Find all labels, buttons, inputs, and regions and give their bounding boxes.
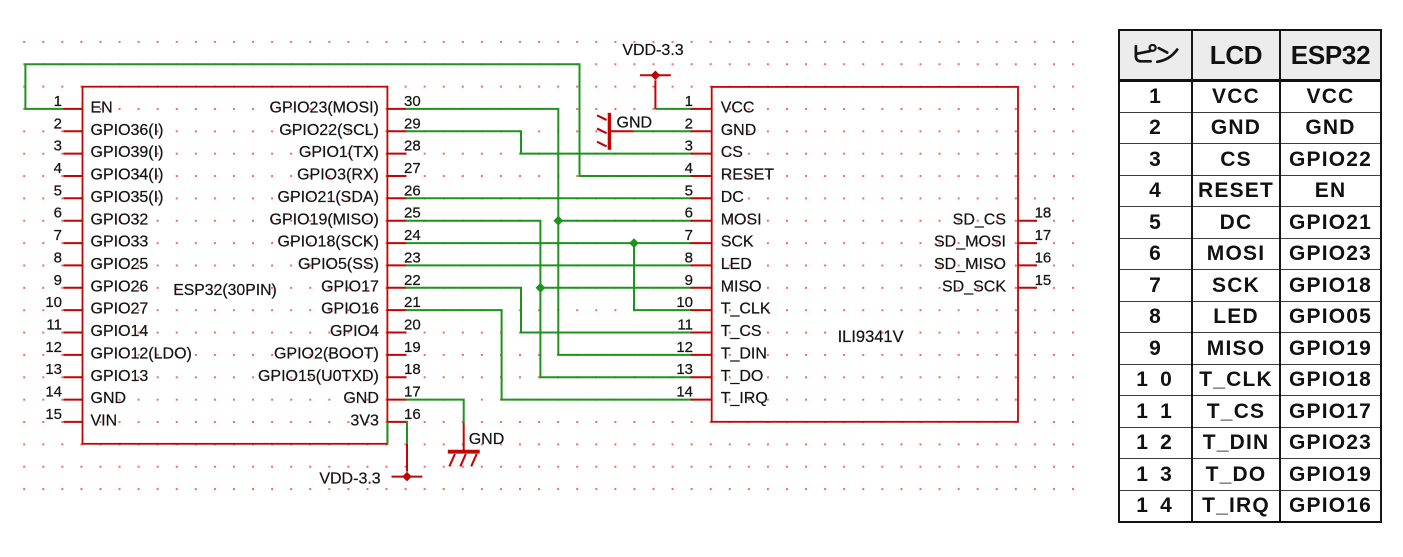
svg-text:14: 14 bbox=[676, 384, 693, 401]
svg-text:10: 10 bbox=[45, 294, 62, 311]
svg-text:9: 9 bbox=[685, 272, 693, 289]
svg-text:GPIO2(BOOT): GPIO2(BOOT) bbox=[274, 346, 379, 363]
svg-text:29: 29 bbox=[404, 115, 421, 132]
svg-text:ILI9341V: ILI9341V bbox=[838, 328, 904, 346]
svg-text:16: 16 bbox=[404, 406, 421, 423]
svg-text:5: 5 bbox=[54, 182, 62, 199]
svg-text:T_DO: T_DO bbox=[721, 368, 764, 385]
svg-text:6: 6 bbox=[54, 205, 62, 222]
svg-text:8: 8 bbox=[685, 249, 693, 266]
svg-text:GPIO14: GPIO14 bbox=[91, 323, 149, 340]
svg-text:GND: GND bbox=[469, 431, 505, 448]
svg-text:GPIO3(RX): GPIO3(RX) bbox=[297, 167, 379, 184]
svg-text:MOSI: MOSI bbox=[721, 211, 762, 228]
svg-text:GPIO27: GPIO27 bbox=[91, 301, 149, 318]
svg-text:GND: GND bbox=[721, 122, 757, 139]
svg-text:19: 19 bbox=[404, 339, 421, 356]
svg-text:T_CLK: T_CLK bbox=[721, 301, 771, 318]
svg-text:GPIO32: GPIO32 bbox=[91, 211, 149, 228]
svg-text:3: 3 bbox=[685, 138, 693, 155]
svg-text:25: 25 bbox=[404, 205, 421, 222]
svg-text:SD_MOSI: SD_MOSI bbox=[934, 234, 1006, 251]
svg-text:28: 28 bbox=[404, 138, 421, 155]
svg-text:GPIO39(I): GPIO39(I) bbox=[91, 144, 164, 161]
svg-text:4: 4 bbox=[685, 160, 693, 177]
svg-text:23: 23 bbox=[404, 249, 421, 266]
svg-text:SCK: SCK bbox=[721, 234, 754, 251]
svg-text:26: 26 bbox=[404, 182, 421, 199]
svg-text:LED: LED bbox=[721, 256, 752, 273]
svg-text:GPIO36(I): GPIO36(I) bbox=[91, 122, 164, 139]
svg-text:15: 15 bbox=[1035, 272, 1052, 289]
svg-text:GPIO17: GPIO17 bbox=[321, 278, 379, 295]
svg-text:18: 18 bbox=[404, 361, 421, 378]
svg-text:3V3: 3V3 bbox=[350, 413, 379, 430]
svg-text:10: 10 bbox=[676, 294, 693, 311]
svg-text:GND: GND bbox=[617, 114, 653, 131]
svg-text:1: 1 bbox=[54, 93, 62, 110]
svg-text:GPIO26: GPIO26 bbox=[91, 278, 149, 295]
svg-text:5: 5 bbox=[685, 182, 693, 199]
svg-text:3: 3 bbox=[54, 138, 62, 155]
svg-text:8: 8 bbox=[54, 249, 62, 266]
svg-text:18: 18 bbox=[1035, 205, 1052, 222]
svg-text:GPIO15(U0TXD): GPIO15(U0TXD) bbox=[258, 368, 379, 385]
svg-text:MISO: MISO bbox=[721, 278, 762, 295]
svg-text:CS: CS bbox=[721, 144, 743, 161]
svg-text:11: 11 bbox=[46, 317, 62, 334]
svg-text:13: 13 bbox=[45, 361, 62, 378]
svg-text:GND: GND bbox=[91, 390, 127, 407]
svg-text:T_CS: T_CS bbox=[721, 323, 762, 340]
svg-text:SD_SCK: SD_SCK bbox=[942, 278, 1006, 295]
svg-text:GPIO12(LDO): GPIO12(LDO) bbox=[91, 346, 192, 363]
svg-text:13: 13 bbox=[676, 361, 693, 378]
svg-text:SD_CS: SD_CS bbox=[953, 211, 1006, 228]
svg-text:12: 12 bbox=[45, 339, 62, 356]
svg-text:RESET: RESET bbox=[721, 167, 775, 184]
svg-text:16: 16 bbox=[1035, 249, 1052, 266]
svg-text:EN: EN bbox=[91, 100, 113, 117]
svg-text:GPIO23(MOSI): GPIO23(MOSI) bbox=[270, 100, 379, 117]
svg-text:GPIO13: GPIO13 bbox=[91, 368, 149, 385]
svg-text:GPIO5(SS): GPIO5(SS) bbox=[298, 256, 379, 273]
svg-text:7: 7 bbox=[685, 227, 693, 244]
svg-text:VCC: VCC bbox=[721, 100, 755, 117]
svg-text:17: 17 bbox=[404, 384, 421, 401]
svg-text:1: 1 bbox=[685, 93, 693, 110]
svg-text:24: 24 bbox=[404, 227, 421, 244]
svg-text:22: 22 bbox=[404, 272, 421, 289]
svg-text:GPIO35(I): GPIO35(I) bbox=[91, 189, 164, 206]
svg-text:GPIO34(I): GPIO34(I) bbox=[91, 167, 164, 184]
svg-text:ESP32(30PIN): ESP32(30PIN) bbox=[173, 282, 277, 299]
svg-text:4: 4 bbox=[54, 160, 62, 177]
svg-text:30: 30 bbox=[404, 93, 421, 110]
svg-text:GPIO4: GPIO4 bbox=[330, 323, 379, 340]
svg-text:7: 7 bbox=[54, 227, 62, 244]
svg-text:GPIO22(SCL): GPIO22(SCL) bbox=[279, 122, 379, 139]
svg-text:T_DIN: T_DIN bbox=[721, 346, 767, 363]
svg-text:GPIO1(TX): GPIO1(TX) bbox=[299, 144, 379, 161]
svg-text:14: 14 bbox=[45, 384, 62, 401]
svg-text:GPIO18(SCK): GPIO18(SCK) bbox=[278, 234, 379, 251]
svg-text:9: 9 bbox=[54, 272, 62, 289]
svg-text:GPIO25: GPIO25 bbox=[91, 256, 149, 273]
svg-text:VDD-3.3: VDD-3.3 bbox=[622, 42, 683, 59]
svg-text:GPIO19(MISO): GPIO19(MISO) bbox=[270, 211, 379, 228]
svg-text:21: 21 bbox=[404, 294, 421, 311]
svg-text:12: 12 bbox=[676, 339, 693, 356]
svg-text:27: 27 bbox=[404, 160, 421, 177]
svg-text:2: 2 bbox=[685, 115, 693, 132]
svg-text:GPIO16: GPIO16 bbox=[321, 301, 379, 318]
svg-text:15: 15 bbox=[45, 406, 62, 423]
svg-text:SD_MISO: SD_MISO bbox=[934, 256, 1006, 273]
svg-text:VDD-3.3: VDD-3.3 bbox=[319, 471, 380, 488]
svg-text:VIN: VIN bbox=[91, 413, 118, 430]
svg-text:2: 2 bbox=[54, 115, 62, 132]
svg-text:17: 17 bbox=[1035, 227, 1052, 244]
svg-text:T_IRQ: T_IRQ bbox=[721, 390, 768, 407]
svg-text:6: 6 bbox=[685, 205, 693, 222]
svg-text:DC: DC bbox=[721, 189, 744, 206]
svg-text:11: 11 bbox=[677, 317, 693, 334]
svg-text:GPIO21(SDA): GPIO21(SDA) bbox=[278, 189, 379, 206]
svg-text:20: 20 bbox=[404, 317, 421, 334]
svg-text:GPIO33: GPIO33 bbox=[91, 234, 149, 251]
svg-text:GND: GND bbox=[343, 390, 379, 407]
